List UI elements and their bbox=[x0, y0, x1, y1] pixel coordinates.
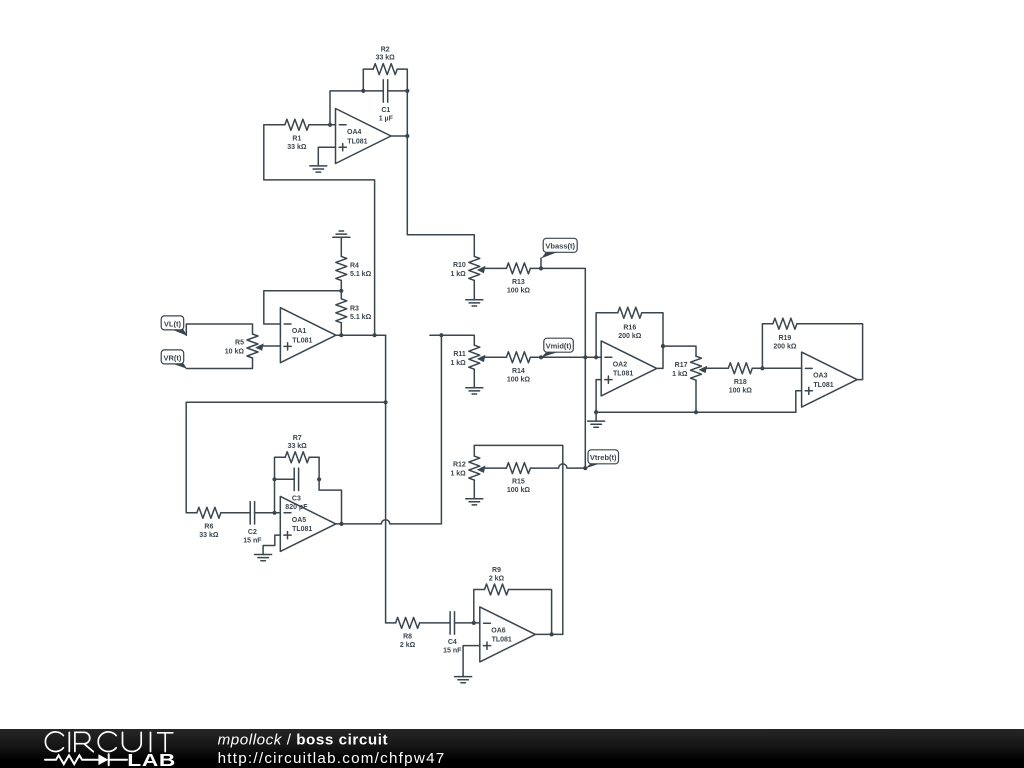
svg-text:OA4: OA4 bbox=[347, 129, 362, 136]
wire R7/C3 right to OA5 output bbox=[319, 457, 341, 524]
svg-text:R19: R19 bbox=[778, 335, 791, 342]
node mid column / R6 branch bbox=[384, 400, 388, 404]
resistor R2 bbox=[363, 47, 407, 91]
wire OA1 output row bbox=[336, 334, 386, 336]
wire Vbass flag pole bbox=[540, 258, 542, 268]
svg-text:VR(t): VR(t) bbox=[163, 353, 181, 362]
svg-text:5.1 kΩ: 5.1 kΩ bbox=[350, 314, 372, 321]
node OA1 output / feedback takeoff bbox=[373, 333, 377, 337]
svg-text:OA5: OA5 bbox=[292, 517, 307, 524]
svg-text:R2: R2 bbox=[381, 47, 390, 54]
capacitor C2 bbox=[243, 502, 280, 545]
ground rail OA2 to OA3 bbox=[596, 411, 796, 413]
svg-text:2 kΩ: 2 kΩ bbox=[489, 576, 505, 583]
node R9 / OA6 output bbox=[550, 632, 554, 636]
svg-text:OA1: OA1 bbox=[292, 328, 307, 335]
node OA5 output / feedback bbox=[339, 522, 343, 526]
logo LAB text bbox=[127, 752, 176, 768]
svg-text:LAB: LAB bbox=[127, 752, 176, 768]
node C3 right bbox=[317, 477, 321, 481]
wire OA4 inverting loop riser bbox=[330, 91, 383, 125]
node R1/OA4 inverting input bbox=[328, 123, 332, 127]
wire R10 wiper to R13 bbox=[481, 267, 506, 269]
node C4 / OA6 inverting input bbox=[472, 621, 476, 625]
wire branch to R6 bbox=[186, 402, 385, 513]
svg-text:C3: C3 bbox=[292, 495, 301, 502]
flag Vtreb(t) bbox=[586, 450, 619, 469]
svg-text:OA2: OA2 bbox=[613, 361, 628, 368]
svg-text:R13: R13 bbox=[512, 279, 525, 286]
svg-text:R3: R3 bbox=[350, 305, 359, 312]
svg-text:TL081: TL081 bbox=[813, 382, 833, 389]
svg-text:33 kΩ: 33 kΩ bbox=[199, 532, 219, 539]
svg-text:33 kΩ: 33 kΩ bbox=[376, 55, 396, 62]
node C3 left bbox=[272, 477, 276, 481]
svg-text:TL081: TL081 bbox=[292, 338, 312, 345]
logo resistor-diode icon bbox=[45, 754, 127, 765]
node OA2 output / R16 / R17 bbox=[661, 344, 665, 348]
logo diode triangle bbox=[98, 754, 108, 765]
resistor R13 bbox=[506, 263, 541, 295]
node ground rail at OA2 bbox=[594, 410, 598, 414]
potentiometer R12 bbox=[450, 456, 485, 480]
resistor R14 bbox=[506, 352, 541, 384]
svg-text:100 kΩ: 100 kΩ bbox=[507, 487, 531, 494]
svg-text:100 kΩ: 100 kΩ bbox=[729, 387, 753, 394]
wire R17 wiper to R18 bbox=[703, 367, 728, 369]
svg-text:TL081: TL081 bbox=[613, 371, 633, 378]
potentiometer R11 bbox=[450, 345, 485, 369]
wire OA4 output bbox=[391, 135, 407, 137]
svg-text:C2: C2 bbox=[248, 529, 257, 536]
wire OA5 output with hop over mid column bbox=[336, 520, 442, 524]
wire Vbass row to summing column bbox=[541, 268, 585, 357]
svg-text:33 kΩ: 33 kΩ bbox=[287, 144, 307, 151]
svg-text:R6: R6 bbox=[204, 523, 213, 530]
wire OA3 non-inverting to ground rail bbox=[796, 391, 802, 412]
potentiometer R17 bbox=[672, 356, 707, 380]
svg-text:R5: R5 bbox=[235, 340, 244, 347]
wire R7 left column bbox=[275, 457, 286, 513]
wire R15 to Vtreb node with hop bbox=[530, 464, 585, 468]
footer title line bbox=[218, 732, 446, 767]
wire R17 bottom to ground rail bbox=[695, 380, 697, 412]
node R18 / R19 / OA3 inverting bbox=[760, 366, 764, 370]
node Vmid summing bbox=[539, 355, 543, 359]
wire OA1 output down mid column bbox=[385, 335, 387, 623]
svg-text:100 kΩ: 100 kΩ bbox=[507, 287, 531, 294]
svg-text:15 nF: 15 nF bbox=[243, 537, 262, 544]
svg-text:33 kΩ: 33 kΩ bbox=[288, 443, 308, 450]
resistor R6 bbox=[197, 507, 250, 539]
op-amp OA2 bbox=[601, 341, 657, 396]
ground R12 bbox=[466, 499, 483, 505]
wire VR(t) to R5 bottom bbox=[186, 358, 252, 369]
svg-text:R12: R12 bbox=[453, 462, 466, 469]
potentiometer R5 bbox=[225, 334, 264, 358]
wire OA6 non-inverting to ground bbox=[463, 646, 480, 677]
ground above R4 (inverted) bbox=[333, 231, 350, 237]
svg-text:R15: R15 bbox=[512, 479, 525, 486]
op-amp OA3 bbox=[802, 352, 858, 407]
wire OA4 non-inverting to ground bbox=[318, 147, 335, 166]
wire R12 wiper to R15 bbox=[481, 467, 506, 469]
svg-text:1 kΩ: 1 kΩ bbox=[672, 371, 688, 378]
svg-text:R9: R9 bbox=[492, 567, 501, 574]
svg-text:200 kΩ: 200 kΩ bbox=[618, 333, 642, 340]
ground OA6 bbox=[455, 677, 472, 683]
wire R1 input from OA1 output bbox=[264, 125, 375, 335]
wire R11 wiper to R14 bbox=[481, 356, 506, 358]
svg-text:1 kΩ: 1 kΩ bbox=[450, 271, 466, 278]
svg-text:5.1 kΩ: 5.1 kΩ bbox=[350, 271, 372, 278]
node R3 bottom / OA1 output bbox=[339, 333, 343, 337]
svg-text:200 kΩ: 200 kΩ bbox=[773, 344, 797, 351]
node C2 / OA5 inverting input bbox=[272, 511, 276, 515]
node ground rail at R17 bbox=[694, 410, 698, 414]
resistor R4 bbox=[336, 237, 372, 291]
node R2 left / C1 row bbox=[361, 89, 365, 93]
svg-text:R11: R11 bbox=[453, 351, 466, 358]
svg-text:http://circuitlab.com/chfpw47: http://circuitlab.com/chfpw47 bbox=[218, 750, 446, 767]
op-amp OA4 bbox=[336, 109, 392, 164]
svg-text:R10: R10 bbox=[453, 262, 466, 269]
wire R3/R4 junction to OA1 inverting input bbox=[264, 291, 342, 324]
resistor R8 bbox=[396, 617, 451, 649]
wire OA4 output to R10 bbox=[407, 136, 474, 256]
flag Vbass(t) bbox=[541, 238, 577, 258]
node R16 column / Vmid row bbox=[594, 355, 598, 359]
resistor R3 bbox=[336, 291, 372, 335]
wire R12 to ground bbox=[473, 480, 475, 499]
wire OA2 output to feedback node bbox=[657, 346, 663, 368]
wire R10 to ground bbox=[473, 280, 475, 299]
ground OA4 bbox=[310, 166, 327, 172]
svg-text:2 kΩ: 2 kΩ bbox=[400, 642, 416, 649]
flag VL(t) bbox=[161, 316, 187, 336]
wire OA6 output bbox=[535, 633, 563, 635]
svg-text:1 µF: 1 µF bbox=[379, 115, 394, 122]
wire OA2 non-inverting to ground rail bbox=[596, 380, 601, 413]
resistor R1 bbox=[285, 119, 336, 151]
svg-text:100 kΩ: 100 kΩ bbox=[507, 376, 531, 383]
capacitor C4 bbox=[443, 612, 480, 655]
wire R11 input stub bbox=[430, 335, 474, 345]
svg-text:R17: R17 bbox=[675, 362, 688, 369]
op-amp OA5 bbox=[280, 496, 336, 551]
wire OA5 output up to R11 node bbox=[440, 335, 442, 524]
svg-text:TL081: TL081 bbox=[492, 637, 512, 644]
svg-text:C4: C4 bbox=[448, 639, 457, 646]
svg-text:Vbass(t): Vbass(t) bbox=[545, 242, 575, 251]
svg-text:VL(t): VL(t) bbox=[164, 319, 182, 328]
wire VL(t) to R5 top bbox=[186, 324, 252, 335]
wire C1 to OA4 output column bbox=[406, 91, 408, 136]
node Vbass summing bbox=[539, 266, 543, 270]
wire feedback node to R17 top bbox=[663, 346, 696, 356]
node R11 input bbox=[439, 333, 443, 337]
wire R18 node to OA3 inverting input bbox=[762, 367, 801, 369]
op-amp OA1 bbox=[280, 308, 336, 363]
svg-text:R4: R4 bbox=[350, 262, 359, 269]
op-amp OA6 bbox=[480, 607, 536, 662]
capacitor C3 bbox=[275, 468, 309, 511]
resistor R15 bbox=[506, 463, 530, 495]
svg-text:Vtreb(t): Vtreb(t) bbox=[590, 453, 617, 462]
node summing column / Vmid row bbox=[583, 355, 587, 359]
resistor R16 bbox=[596, 307, 663, 357]
flag VR(t) bbox=[161, 350, 187, 369]
resistor R18 bbox=[728, 363, 762, 395]
capacitor C1 bbox=[379, 80, 408, 123]
svg-text:mpollock / boss circuit: mpollock / boss circuit bbox=[218, 732, 389, 749]
wire Vmid row to OA2 inverting input bbox=[541, 356, 601, 358]
wire summing column to Vtreb row bbox=[584, 357, 586, 468]
svg-text:Vmid(t): Vmid(t) bbox=[546, 342, 572, 351]
node R2 right / C1 row bbox=[405, 89, 409, 93]
resistor R19 bbox=[762, 318, 862, 379]
node Vtreb summing bbox=[583, 466, 587, 470]
wire R11 to ground bbox=[473, 369, 475, 388]
svg-text:R7: R7 bbox=[293, 435, 302, 442]
ground OA5 bbox=[255, 555, 272, 561]
svg-text:R1: R1 bbox=[292, 135, 301, 142]
svg-text:R16: R16 bbox=[623, 324, 636, 331]
svg-text:10 kΩ: 10 kΩ bbox=[225, 349, 245, 356]
resistor R9 bbox=[485, 567, 552, 634]
resistor R7 bbox=[285, 435, 319, 463]
wire mid column to R8 bbox=[386, 622, 396, 624]
ground R11 bbox=[466, 388, 483, 394]
svg-text:R14: R14 bbox=[512, 368, 525, 375]
svg-text:OA3: OA3 bbox=[813, 373, 828, 380]
potentiometer R10 bbox=[450, 256, 485, 280]
node OA4 output bbox=[405, 134, 409, 138]
svg-text:1 kΩ: 1 kΩ bbox=[450, 360, 466, 367]
ground R10 bbox=[466, 300, 483, 306]
svg-text:TL081: TL081 bbox=[292, 526, 312, 533]
svg-text:TL081: TL081 bbox=[347, 138, 367, 145]
svg-text:OA6: OA6 bbox=[491, 627, 506, 634]
svg-text:C1: C1 bbox=[381, 107, 390, 114]
svg-text:R18: R18 bbox=[734, 379, 747, 386]
wire R9 left column bbox=[474, 590, 485, 623]
wire OA5 non-inverting to ground bbox=[263, 535, 280, 554]
svg-text:R8: R8 bbox=[403, 633, 412, 640]
wire OA6 output up to R12 top loop bbox=[474, 445, 563, 634]
node R3/R4 junction bbox=[339, 289, 343, 293]
wire R5 wiper to OA1 non-inverting input bbox=[260, 345, 281, 347]
flag Vmid(t) bbox=[541, 338, 573, 357]
svg-text:15 nF: 15 nF bbox=[443, 647, 462, 654]
ground OA2 rail bbox=[588, 412, 605, 427]
svg-text:1 kΩ: 1 kΩ bbox=[450, 471, 466, 478]
CircuitLab logo wordmark bbox=[45, 732, 172, 752]
